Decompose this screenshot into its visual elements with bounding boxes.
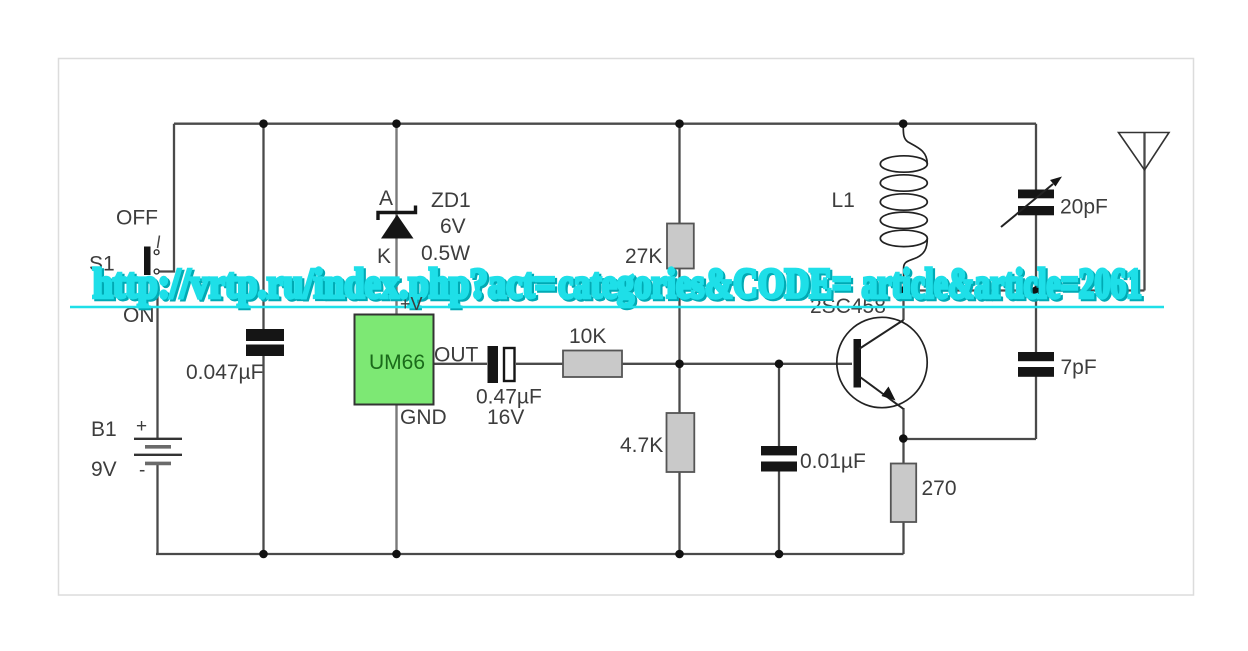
wire zener branch [395,124,397,315]
svg-text:L1: L1 [832,189,855,212]
wire 4.7K top lead [678,364,680,413]
antenna [1119,133,1170,171]
wire 27K bottom lead [678,268,680,364]
capacitor C 7pF [1018,352,1054,377]
wire cap C1 bottom lead [262,355,264,554]
node top C1 [259,119,268,128]
wire collector node to antenna [903,289,1144,291]
svg-text:9V: 9V [91,458,117,481]
svg-text:+: + [136,416,147,437]
wire antenna drop [1143,133,1145,291]
node bottom GND [392,550,401,559]
wire 0.01uF top lead [778,364,780,448]
svg-text:http://vrtp.ru/index.php?act=: http://vrtp.ru/index.php?act= [93,262,556,308]
svg-text:+V: +V [400,294,423,314]
wire OUT to coupling cap [433,363,487,365]
wire top rail [174,123,1036,125]
IC U1 UM66 [355,315,434,405]
wire 10K to base [622,363,852,365]
node bottom 4.7K [675,550,684,559]
wire cap to 10K [516,363,563,365]
zener diode ZD1 [378,206,416,239]
inductor L1 [880,124,927,291]
node top 27K [675,119,684,128]
border frame [59,59,1194,596]
capacitor C2 0.47uF [488,346,515,383]
svg-text:UM66: UM66 [369,351,425,374]
battery B1 [134,439,182,464]
node base [775,360,784,369]
wire 0.01uF bottom lead [778,471,780,554]
svg-text:article&article=2061: article&article=2061 [862,262,1143,308]
svg-text:OUT: OUT [434,344,479,367]
node top zener [392,119,401,128]
wire bottom rail [156,553,904,555]
wire battery to bottom rail [156,464,158,555]
wire right rail above 20pF [1035,124,1037,190]
wire emitter node to right rail [904,438,1037,440]
node right rail tap [1032,286,1041,295]
node bottom 0.01uF [775,550,784,559]
wire right rail 20pF to 7pF [1035,212,1037,353]
wire switch to battery [156,292,158,438]
wire UM66 GND lead [395,404,397,554]
wire cap C1 top lead [262,124,264,330]
svg-text:-: - [139,460,145,481]
resistor R 270 [891,464,916,523]
wire 270 bottom lead [902,522,904,554]
node collector [899,286,908,295]
svg-text:0.01µF: 0.01µF [800,450,866,473]
wire 27K top lead [678,124,680,224]
resistor R 4.7K [667,413,695,472]
wire left drop to switch [159,124,174,272]
watermark shadow [95,264,1145,310]
svg-text:0.047µF: 0.047µF [186,361,263,384]
svg-text:GND: GND [400,406,447,429]
node top L1 [899,119,908,128]
node bottom C1 [259,550,268,559]
svg-text:OFF: OFF [116,207,158,230]
svg-text:A: A [379,187,393,210]
wire 4.7K bottom lead [678,472,680,554]
variable capacitor 20pF [1001,177,1062,228]
wire collector vertical [902,291,904,321]
svg-text:categories&CODE=: categories&CODE= [558,262,852,308]
capacitor C 0.047uF [246,329,284,356]
svg-text:16V: 16V [487,406,524,429]
watermark underline [70,306,1164,309]
resistor R 10K [563,351,622,378]
capacitor C 0.01uF [761,446,797,472]
node emitter [899,434,908,443]
svg-text:6V: 6V [440,215,466,238]
svg-text:B1: B1 [91,418,117,441]
svg-text:10K: 10K [569,325,606,348]
watermark text [93,262,1143,308]
svg-text:7pF: 7pF [1061,356,1097,379]
svg-text:270: 270 [922,477,957,500]
svg-text:4.7K: 4.7K [620,434,663,457]
node mid 27K-4.7K [675,360,684,369]
resistor R 27K [667,224,694,269]
wire right rail below 7pF [1035,376,1037,439]
wire emitter to 270 [902,439,904,464]
svg-text:ZD1: ZD1 [431,189,471,212]
wire emitter vertical [902,408,904,439]
svg-text:20pF: 20pF [1060,196,1108,219]
switch S1 body [144,236,160,293]
transistor Q1 2SC458 [837,317,927,409]
